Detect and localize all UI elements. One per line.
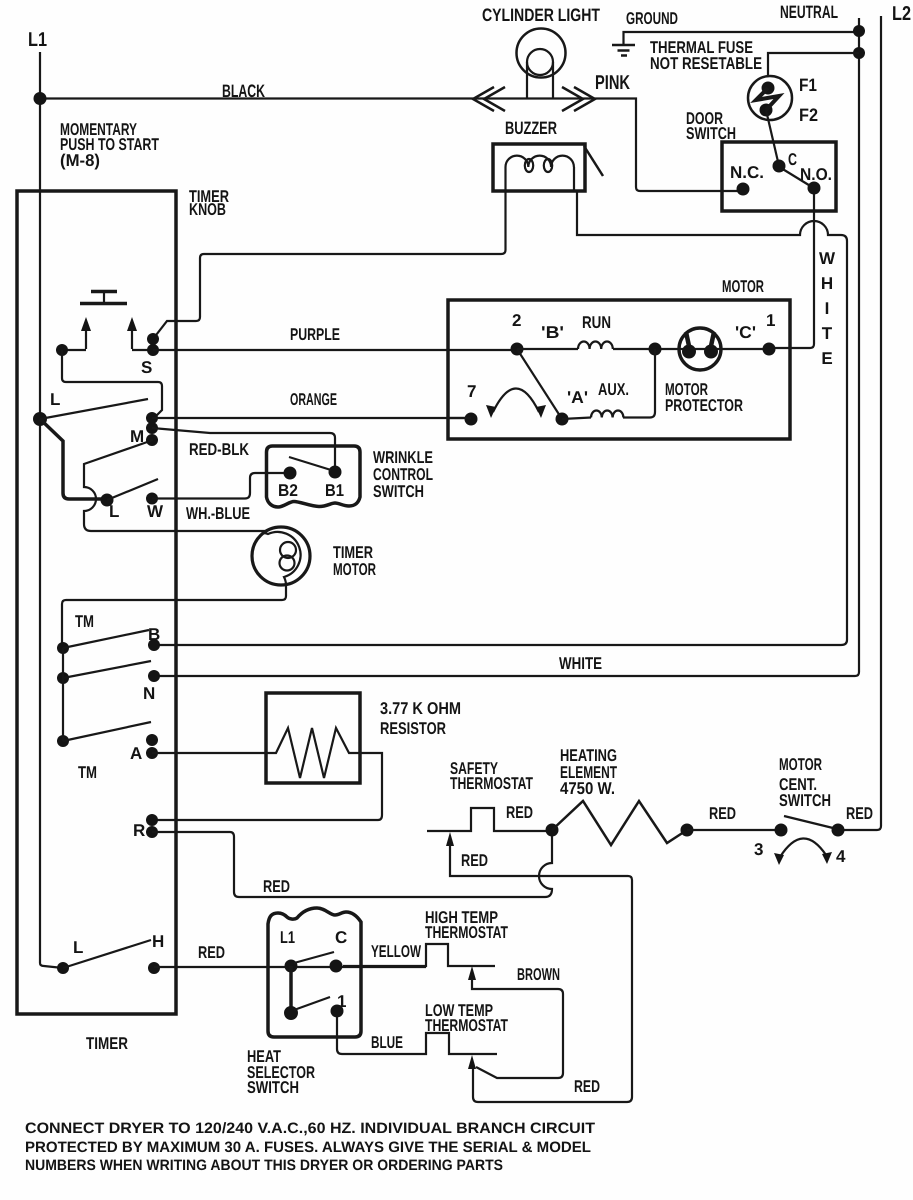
svg-text:1: 1 [337, 992, 346, 1011]
svg-text:AUX.: AUX. [598, 380, 629, 399]
svg-text:S: S [141, 358, 152, 377]
svg-text:N.O.: N.O. [800, 165, 832, 184]
svg-text:3.77 K OHM: 3.77 K OHM [380, 699, 461, 718]
svg-text:7: 7 [467, 382, 476, 401]
svg-text:L1: L1 [28, 29, 47, 51]
svg-text:RED: RED [574, 1077, 600, 1096]
svg-text:RUN: RUN [582, 313, 611, 332]
svg-text:SWITCH: SWITCH [686, 124, 736, 143]
svg-text:N: N [143, 684, 155, 703]
svg-text:SWITCH: SWITCH [373, 482, 424, 501]
svg-text:BROWN: BROWN [517, 965, 560, 984]
svg-text:BUZZER: BUZZER [505, 118, 557, 138]
svg-text:BLACK: BLACK [222, 81, 265, 101]
svg-text:L2: L2 [892, 3, 911, 25]
svg-text:RED: RED [461, 851, 488, 870]
svg-text:GROUND: GROUND [626, 9, 678, 28]
svg-text:TM: TM [75, 612, 94, 631]
svg-text:W: W [147, 502, 164, 521]
svg-text:N.C.: N.C. [730, 163, 764, 182]
svg-text:KNOB: KNOB [189, 200, 226, 219]
svg-text:'A': 'A' [567, 388, 588, 407]
svg-text:RED: RED [198, 943, 225, 962]
svg-text:WHITE: WHITE [559, 654, 602, 673]
svg-text:M: M [130, 427, 144, 446]
svg-text:RESISTOR: RESISTOR [380, 719, 446, 738]
svg-text:I: I [825, 299, 830, 318]
svg-text:RED: RED [846, 804, 873, 823]
svg-text:F1: F1 [799, 75, 817, 95]
svg-text:3: 3 [754, 840, 763, 859]
svg-text:MOTOR: MOTOR [779, 755, 822, 774]
svg-text:SWITCH: SWITCH [779, 791, 831, 810]
svg-text:RED: RED [506, 803, 533, 822]
svg-text:B1: B1 [325, 481, 344, 500]
svg-text:4750 W.: 4750 W. [560, 779, 615, 798]
svg-text:CYLINDER LIGHT: CYLINDER LIGHT [482, 5, 600, 25]
svg-text:2: 2 [512, 311, 521, 330]
svg-text:B: B [148, 625, 160, 644]
svg-text:MOTOR: MOTOR [722, 277, 764, 296]
svg-text:1: 1 [766, 311, 775, 330]
svg-text:RED: RED [709, 804, 736, 823]
svg-text:L1: L1 [280, 928, 295, 947]
svg-text:B2: B2 [278, 481, 298, 500]
svg-text:NEUTRAL: NEUTRAL [780, 2, 838, 22]
svg-text:PROTECTOR: PROTECTOR [665, 396, 743, 415]
svg-text:BLUE: BLUE [371, 1033, 403, 1052]
svg-text:W: W [819, 249, 836, 268]
svg-text:THERMOSTAT: THERMOSTAT [425, 1016, 508, 1035]
svg-text:CONNECT DRYER TO 120/240 V.A.C: CONNECT DRYER TO 120/240 V.A.C.,60 HZ. I… [25, 1120, 595, 1137]
svg-text:TIMER: TIMER [86, 1034, 128, 1053]
svg-text:YELLOW: YELLOW [371, 942, 422, 961]
svg-text:'B': 'B' [541, 323, 564, 342]
svg-text:R: R [133, 821, 145, 840]
svg-text:PROTECTED BY MAXIMUM 30 A. FUS: PROTECTED BY MAXIMUM 30 A. FUSES. ALWAYS… [25, 1139, 591, 1156]
svg-text:PINK: PINK [595, 72, 630, 94]
svg-text:'C': 'C' [735, 323, 756, 342]
svg-text:C: C [788, 150, 797, 169]
svg-text:PURPLE: PURPLE [290, 325, 340, 344]
svg-text:WH.-BLUE: WH.-BLUE [186, 504, 250, 523]
svg-text:A: A [130, 744, 142, 763]
svg-text:(M-8): (M-8) [60, 151, 100, 170]
svg-text:C: C [335, 928, 347, 947]
svg-text:H: H [152, 932, 164, 951]
svg-text:RED: RED [263, 877, 290, 896]
svg-text:H: H [821, 274, 833, 293]
svg-text:L: L [50, 390, 60, 409]
svg-text:RED-BLK: RED-BLK [189, 440, 250, 459]
svg-text:MOTOR: MOTOR [333, 560, 376, 579]
svg-text:THERMOSTAT: THERMOSTAT [450, 774, 533, 793]
svg-text:E: E [821, 349, 832, 368]
svg-text:L: L [73, 938, 83, 957]
svg-text:T: T [822, 324, 833, 343]
svg-text:NUMBERS WHEN WRITING ABOUT THI: NUMBERS WHEN WRITING ABOUT THIS DRYER OR… [25, 1157, 503, 1174]
svg-text:L: L [109, 502, 119, 521]
svg-text:NOT RESETABLE: NOT RESETABLE [650, 54, 762, 73]
svg-text:SWITCH: SWITCH [247, 1078, 299, 1097]
svg-text:ORANGE: ORANGE [290, 390, 337, 409]
svg-text:TM: TM [78, 763, 97, 782]
svg-text:F2: F2 [799, 105, 818, 125]
svg-text:4: 4 [836, 847, 846, 866]
svg-text:THERMOSTAT: THERMOSTAT [425, 923, 508, 942]
